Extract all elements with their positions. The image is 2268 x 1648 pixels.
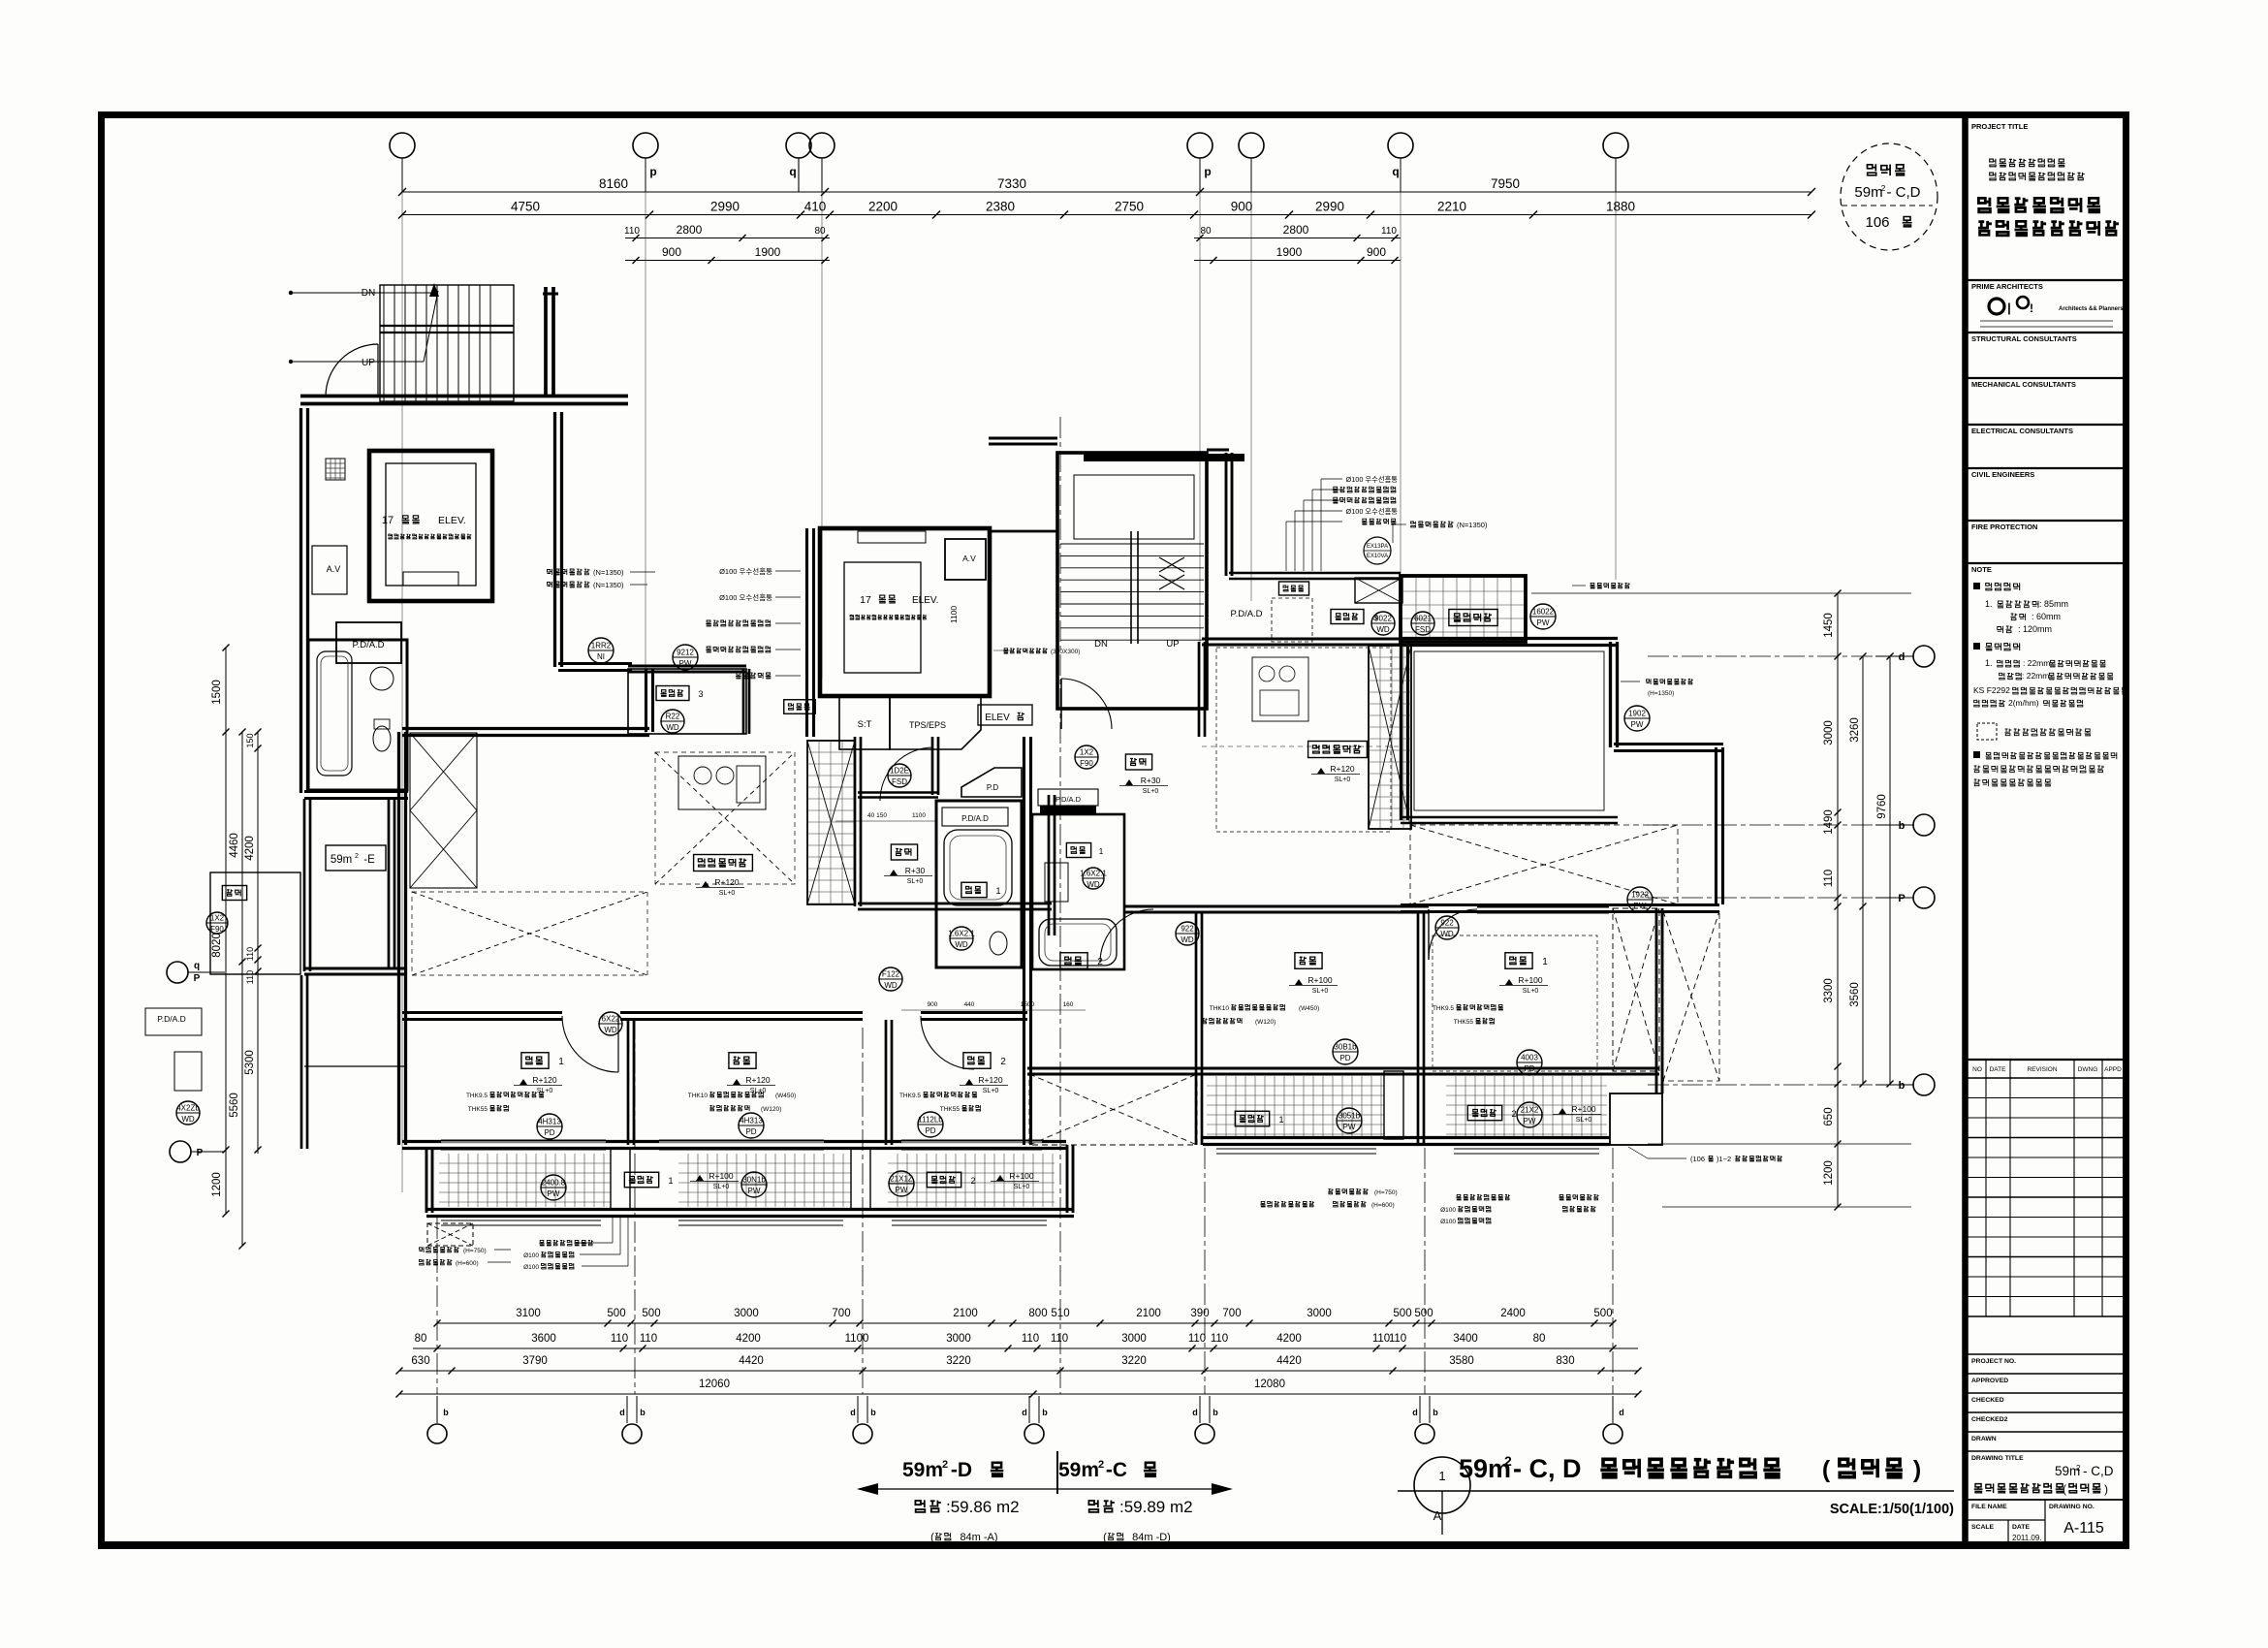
svg-text:8160: 8160 xyxy=(599,176,628,191)
svg-text:3300: 3300 xyxy=(1823,978,1835,1003)
svg-text:!: ! xyxy=(2030,301,2033,315)
svg-text:UP: UP xyxy=(362,358,375,368)
svg-text:SL+0: SL+0 xyxy=(1014,1184,1030,1190)
svg-text:21X1Z: 21X1Z xyxy=(890,1175,913,1184)
D balconies xyxy=(439,1154,611,1207)
svg-text:900: 900 xyxy=(662,245,681,259)
svg-text:PW: PW xyxy=(748,1187,761,1195)
svg-text:WD: WD xyxy=(1087,880,1100,889)
svg-text:1100: 1100 xyxy=(949,606,959,624)
svg-text:b: b xyxy=(1433,1408,1438,1417)
svg-text:2: 2 xyxy=(1000,1057,1006,1067)
svg-text:4420: 4420 xyxy=(1276,1355,1302,1367)
svg-text:7950: 7950 xyxy=(1491,176,1520,191)
svg-text:110: 110 xyxy=(1823,870,1835,887)
svg-text:1: 1 xyxy=(1099,846,1104,856)
svg-text:WD: WD xyxy=(604,1026,617,1034)
svg-text:7330: 7330 xyxy=(997,176,1026,191)
svg-text:SL+0: SL+0 xyxy=(713,1184,730,1190)
svg-text:P.D/A.D: P.D/A.D xyxy=(1055,795,1082,804)
svg-text:-E: -E xyxy=(363,854,375,866)
svg-text:3220: 3220 xyxy=(946,1355,971,1367)
svg-text:EX10VA: EX10VA xyxy=(1367,554,1388,559)
svg-text:2100: 2100 xyxy=(953,1308,978,1319)
svg-text:PW: PW xyxy=(1634,902,1647,910)
svg-text:2380: 2380 xyxy=(986,200,1015,214)
svg-text:3: 3 xyxy=(698,689,703,699)
svg-text:5300: 5300 xyxy=(244,1050,256,1075)
svg-text:30B1b: 30B1b xyxy=(1334,1043,1357,1052)
svg-text:(106: (106 xyxy=(1690,1155,1705,1163)
svg-text:R+100: R+100 xyxy=(1518,975,1543,985)
svg-text:PW: PW xyxy=(1537,618,1550,627)
svg-text:9022: 9022 xyxy=(1374,615,1392,623)
svg-text:4003: 4003 xyxy=(1521,1054,1538,1062)
svg-text:110: 110 xyxy=(1372,1333,1390,1345)
svg-text:WD: WD xyxy=(666,723,679,732)
svg-text:THK9.5: THK9.5 xyxy=(466,1093,488,1099)
svg-text:2100: 2100 xyxy=(1136,1308,1161,1319)
svg-text:ELECTRICAL CONSULTANTS: ELECTRICAL CONSULTANTS xyxy=(1971,427,2073,435)
svg-text:510: 510 xyxy=(1051,1308,1069,1319)
svg-text:3000: 3000 xyxy=(1307,1308,1332,1319)
svg-text:): ) xyxy=(2104,1482,2108,1496)
svg-text:(N=1350): (N=1350) xyxy=(593,568,624,577)
svg-text:1: 1 xyxy=(1542,957,1548,967)
svg-text:80: 80 xyxy=(415,1333,427,1345)
svg-text:DRAWN: DRAWN xyxy=(1971,1436,1997,1442)
svg-text:R+30: R+30 xyxy=(1141,776,1161,785)
svg-text:1100: 1100 xyxy=(845,1333,869,1345)
svg-text:PD: PD xyxy=(1339,1054,1350,1062)
svg-text:R+100: R+100 xyxy=(1307,975,1333,985)
svg-text:: 120mm: : 120mm xyxy=(2018,624,2052,634)
svg-text:84m -A): 84m -A) xyxy=(960,1532,997,1543)
unit span labels xyxy=(1056,1451,1058,1494)
svg-text:SL+0: SL+0 xyxy=(1143,788,1159,795)
svg-text:1490: 1490 xyxy=(1823,809,1835,835)
svg-text:R+100: R+100 xyxy=(1571,1104,1596,1114)
svg-text:700: 700 xyxy=(1222,1308,1241,1319)
svg-text:THK9.5: THK9.5 xyxy=(1433,1005,1454,1012)
svg-text:160: 160 xyxy=(1063,1001,1074,1008)
svg-text:P.D/A.D: P.D/A.D xyxy=(157,1014,186,1024)
svg-text:59m: 59m xyxy=(1854,184,1882,201)
svg-text:): ) xyxy=(1913,1456,1921,1483)
svg-text:3220: 3220 xyxy=(1121,1355,1147,1367)
svg-text:3260: 3260 xyxy=(1849,717,1861,743)
C unit refuge room xyxy=(1401,576,1526,642)
svg-text:SL+0: SL+0 xyxy=(1523,988,1539,995)
svg-text:PW: PW xyxy=(1343,1123,1356,1131)
svg-text:d: d xyxy=(1412,1408,1418,1417)
svg-text:p: p xyxy=(1204,165,1211,178)
svg-text:SL+0: SL+0 xyxy=(1576,1117,1592,1124)
svg-text:REVISION: REVISION xyxy=(2027,1066,2057,1073)
svg-text:30N1b: 30N1b xyxy=(742,1176,766,1185)
svg-text:SL+0: SL+0 xyxy=(983,1088,999,1094)
svg-text:ELEV: ELEV xyxy=(985,713,1010,723)
svg-text:1X2: 1X2 xyxy=(210,914,225,923)
svg-text:3400: 3400 xyxy=(1453,1333,1478,1345)
svg-text:9212: 9212 xyxy=(677,649,694,657)
svg-text:- C, D: - C, D xyxy=(1513,1454,1582,1483)
svg-text:THK55: THK55 xyxy=(1454,1019,1474,1026)
bath D xyxy=(936,801,1022,967)
left elevator xyxy=(369,451,492,601)
svg-text:1: 1 xyxy=(558,1057,564,1067)
svg-text:FIRE PROTECTION: FIRE PROTECTION xyxy=(1971,523,2037,531)
svg-text:17: 17 xyxy=(860,594,871,606)
svg-text:DRAWING NO.: DRAWING NO. xyxy=(2049,1504,2095,1510)
svg-text:(N=1350): (N=1350) xyxy=(593,581,624,589)
svg-text:F90: F90 xyxy=(210,925,224,934)
svg-text:d: d xyxy=(850,1408,856,1417)
svg-text:16022: 16022 xyxy=(1532,608,1555,617)
svg-text:(300X300): (300X300) xyxy=(1051,649,1080,655)
svg-text:110: 110 xyxy=(1188,1333,1206,1345)
svg-text:3000: 3000 xyxy=(1823,720,1835,745)
svg-text:2800: 2800 xyxy=(677,223,703,237)
svg-text:R+120: R+120 xyxy=(1330,764,1355,774)
svg-text:NOTE: NOTE xyxy=(1971,565,1992,574)
svg-text:DN: DN xyxy=(1094,639,1108,650)
svg-text:-C: -C xyxy=(1106,1459,1127,1481)
svg-text:TPS/EPS: TPS/EPS xyxy=(909,720,946,730)
svg-text:(: ( xyxy=(2063,1482,2066,1496)
svg-text:PW: PW xyxy=(1524,1117,1536,1125)
svg-text:Ø100 우수선홈통: Ø100 우수선홈통 xyxy=(1346,475,1399,484)
svg-text:p: p xyxy=(649,165,656,178)
svg-text:80: 80 xyxy=(1533,1333,1546,1345)
svg-text:84m -D): 84m -D) xyxy=(1132,1532,1171,1543)
svg-text:Ø100 오수선홈통: Ø100 오수선홈통 xyxy=(719,592,772,602)
svg-text:q: q xyxy=(194,961,200,971)
svg-text:b: b xyxy=(1899,820,1906,832)
balcony3 D xyxy=(628,669,746,734)
svg-text:1450: 1450 xyxy=(1823,613,1835,638)
center stair xyxy=(1057,453,1207,709)
svg-text:1RR2: 1RR2 xyxy=(591,642,612,650)
svg-text:d: d xyxy=(1022,1408,1027,1417)
svg-text:b: b xyxy=(1213,1408,1218,1417)
svg-text:DATE: DATE xyxy=(1990,1066,2007,1073)
svg-text:b: b xyxy=(443,1408,449,1417)
svg-text:3000: 3000 xyxy=(1121,1333,1147,1345)
kitchen label xyxy=(694,855,753,872)
svg-text:P.D/A.D: P.D/A.D xyxy=(961,814,989,823)
svg-text:9760: 9760 xyxy=(1876,794,1888,819)
svg-text:(W120): (W120) xyxy=(1255,1019,1276,1026)
svg-text:2400.8: 2400.8 xyxy=(542,1179,566,1188)
svg-text:FILE NAME: FILE NAME xyxy=(1971,1504,2007,1510)
svg-text:R+30: R+30 xyxy=(905,866,926,875)
svg-text:(N=1350): (N=1350) xyxy=(1457,521,1488,529)
svg-text:2: 2 xyxy=(2076,1464,2081,1473)
svg-text:2: 2 xyxy=(1504,1453,1512,1469)
svg-text:P: P xyxy=(1898,893,1905,904)
svg-text:110: 110 xyxy=(245,947,255,961)
svg-text:b: b xyxy=(1042,1408,1048,1417)
svg-text:4200: 4200 xyxy=(736,1333,761,1345)
svg-text:: 22mm: : 22mm xyxy=(2022,671,2049,681)
svg-text:110: 110 xyxy=(1051,1333,1068,1345)
svg-text:R+120: R+120 xyxy=(532,1075,557,1085)
svg-text:b: b xyxy=(870,1408,876,1417)
svg-text:DN: DN xyxy=(362,288,375,299)
svg-text:(W120): (W120) xyxy=(761,1106,781,1113)
svg-text:4420: 4420 xyxy=(739,1355,764,1367)
svg-text:3560: 3560 xyxy=(1849,982,1861,1007)
svg-text:3100: 3100 xyxy=(516,1308,541,1319)
svg-text:59m: 59m xyxy=(902,1459,943,1481)
svg-text:110: 110 xyxy=(1211,1333,1228,1345)
svg-text:q: q xyxy=(1392,165,1399,178)
svg-text:106: 106 xyxy=(1865,214,1889,231)
svg-text:|: | xyxy=(2007,301,2011,315)
svg-text:WD: WD xyxy=(955,940,968,949)
D unit envelope xyxy=(402,734,649,737)
svg-text:PD: PD xyxy=(1524,1064,1534,1073)
svg-text:NO: NO xyxy=(1972,1066,1982,1073)
svg-text:SL+0: SL+0 xyxy=(1335,776,1351,783)
svg-text:922: 922 xyxy=(1440,919,1454,928)
svg-text:900: 900 xyxy=(1231,200,1253,214)
bedroom top wall D xyxy=(402,1018,562,1021)
svg-text:- C,D: - C,D xyxy=(1887,184,1921,201)
svg-text:Ø100: Ø100 xyxy=(1440,1207,1456,1214)
svg-text:110: 110 xyxy=(640,1333,657,1345)
svg-text:2800: 2800 xyxy=(1283,223,1309,237)
svg-text:SCALE: SCALE xyxy=(1971,1524,1995,1531)
svg-text:6021: 6021 xyxy=(1414,615,1432,623)
svg-text:700: 700 xyxy=(832,1308,850,1319)
svg-text:1.: 1. xyxy=(1985,599,1993,609)
svg-text:110: 110 xyxy=(1389,1333,1406,1345)
svg-text:WD: WD xyxy=(884,981,898,990)
svg-text:PD: PD xyxy=(544,1128,554,1137)
svg-text:THK10: THK10 xyxy=(1210,1005,1230,1012)
svg-text:410: 410 xyxy=(804,200,827,214)
svg-text:P.D/A.D: P.D/A.D xyxy=(1230,609,1262,619)
svg-text:PW: PW xyxy=(896,1186,908,1194)
svg-text:2990: 2990 xyxy=(1315,200,1344,214)
svg-text:900: 900 xyxy=(1367,245,1386,259)
svg-text:1900: 1900 xyxy=(755,245,781,259)
svg-text:THK55: THK55 xyxy=(468,1106,488,1113)
svg-text:80: 80 xyxy=(1200,226,1212,237)
svg-text:2(m/hm): 2(m/hm) xyxy=(2008,698,2039,708)
svg-text:(W450): (W450) xyxy=(775,1093,796,1099)
svg-text:DRAWING TITLE: DRAWING TITLE xyxy=(1971,1455,2024,1462)
svg-text:WD: WD xyxy=(1376,625,1390,634)
C big room xyxy=(1401,644,1618,647)
svg-text:WD: WD xyxy=(1181,935,1194,944)
svg-text:WD: WD xyxy=(181,1115,195,1124)
svg-text:d: d xyxy=(1192,1408,1198,1417)
C X region xyxy=(1410,825,1678,904)
svg-text:3580: 3580 xyxy=(1449,1355,1474,1367)
svg-text:SL+0: SL+0 xyxy=(907,878,924,885)
svg-text:R+120: R+120 xyxy=(978,1075,1003,1085)
svg-text:q: q xyxy=(789,165,796,178)
svg-text:4X2Zb: 4X2Zb xyxy=(176,1104,200,1113)
svg-text:2: 2 xyxy=(1098,1459,1104,1471)
svg-text:(: ( xyxy=(1822,1456,1831,1483)
svg-text:80: 80 xyxy=(814,226,826,237)
svg-text:THK10: THK10 xyxy=(688,1093,709,1099)
svg-text:DWNG: DWNG xyxy=(2078,1066,2098,1073)
svg-text:- C,D: - C,D xyxy=(2083,1464,2114,1478)
svg-text:F90: F90 xyxy=(1080,759,1093,768)
svg-text:d: d xyxy=(619,1408,625,1417)
svg-text:1900: 1900 xyxy=(1276,245,1303,259)
svg-text:PW: PW xyxy=(1631,720,1644,729)
svg-text::59.86 m2: :59.86 m2 xyxy=(946,1498,1020,1516)
svg-text:PD: PD xyxy=(745,1127,756,1136)
svg-text::59.89 m2: :59.89 m2 xyxy=(1119,1498,1193,1516)
svg-text:CHECKED2: CHECKED2 xyxy=(1971,1416,2008,1423)
C balconies xyxy=(1207,1076,1384,1136)
svg-text:PW: PW xyxy=(548,1189,560,1198)
svg-text:F122: F122 xyxy=(882,970,900,979)
svg-text:110: 110 xyxy=(1381,226,1397,237)
svg-text:59m: 59m xyxy=(1058,1459,1099,1481)
svg-text:922: 922 xyxy=(1181,925,1194,934)
svg-text:40 150: 40 150 xyxy=(867,812,887,819)
svg-text:500: 500 xyxy=(1414,1308,1433,1319)
svg-text:110: 110 xyxy=(624,226,640,237)
svg-text:650: 650 xyxy=(1823,1107,1835,1125)
svg-text:21X2: 21X2 xyxy=(1521,1106,1539,1115)
svg-text:2: 2 xyxy=(1097,957,1103,967)
svg-text:1500: 1500 xyxy=(1021,1001,1035,1008)
svg-text:1880: 1880 xyxy=(1606,200,1635,214)
svg-text:1: 1 xyxy=(668,1176,673,1186)
svg-text:THK55: THK55 xyxy=(940,1106,961,1113)
svg-text:2: 2 xyxy=(970,1176,975,1186)
svg-text:WD: WD xyxy=(1440,930,1454,938)
svg-text:PROJECT NO.: PROJECT NO. xyxy=(1971,1358,2016,1365)
svg-text:Ø100: Ø100 xyxy=(523,1264,539,1271)
svg-text:NI: NI xyxy=(597,652,605,661)
svg-text:APPD: APPD xyxy=(2104,1066,2122,1073)
svg-text:110: 110 xyxy=(611,1333,628,1345)
svg-text:KS F2292: KS F2292 xyxy=(1973,685,2010,695)
svg-text:2: 2 xyxy=(355,853,359,860)
svg-text:2210: 2210 xyxy=(1437,200,1466,214)
right dims xyxy=(1648,1143,1911,1145)
bottom dims xyxy=(437,1322,1613,1324)
left dims xyxy=(225,648,227,1214)
svg-text:1D2E: 1D2E xyxy=(890,767,909,776)
svg-text:500: 500 xyxy=(642,1308,660,1319)
59E bath xyxy=(308,640,407,790)
svg-text:(H=1350): (H=1350) xyxy=(1648,690,1674,697)
svg-text:110: 110 xyxy=(1022,1333,1039,1345)
svg-text:3000: 3000 xyxy=(946,1333,971,1345)
svg-text:1.6X2.1: 1.6X2.1 xyxy=(948,930,975,938)
svg-text:d: d xyxy=(1619,1408,1624,1417)
svg-text:(H=750): (H=750) xyxy=(1374,1189,1398,1196)
svg-text:PROJECT TITLE: PROJECT TITLE xyxy=(1971,122,2028,131)
svg-text:STRUCTURAL CONSULTANTS: STRUCTURAL CONSULTANTS xyxy=(1971,334,2077,343)
svg-text:2750: 2750 xyxy=(1115,200,1144,214)
svg-text:(: ( xyxy=(930,1532,934,1543)
svg-text:2: 2 xyxy=(1881,183,1886,193)
svg-text:APPROVED: APPROVED xyxy=(1971,1378,2008,1384)
svg-text:500: 500 xyxy=(1393,1308,1411,1319)
svg-text:900: 900 xyxy=(928,1001,938,1008)
elevator 2 xyxy=(820,528,990,696)
svg-text:800: 800 xyxy=(1028,1308,1047,1319)
svg-text:1112Lb: 1112Lb xyxy=(918,1116,943,1125)
svg-text:1X2: 1X2 xyxy=(1080,748,1094,757)
svg-text:: 22mm: : 22mm xyxy=(2023,658,2050,668)
svg-text:)1~2: )1~2 xyxy=(1717,1155,1731,1163)
svg-text:500: 500 xyxy=(1593,1308,1612,1319)
svg-text:DATE: DATE xyxy=(2012,1524,2030,1531)
svg-text:R+120: R+120 xyxy=(745,1075,771,1085)
svg-text:12060: 12060 xyxy=(699,1379,730,1390)
svg-text:d: d xyxy=(1899,651,1906,663)
svg-text:PRIME ARCHITECTS: PRIME ARCHITECTS xyxy=(1971,282,2043,291)
svg-text:1: 1 xyxy=(1438,1469,1445,1483)
svg-text:R22: R22 xyxy=(666,713,680,721)
svg-text:: 60mm: : 60mm xyxy=(2032,612,2061,621)
svg-text:390: 390 xyxy=(1190,1308,1209,1319)
svg-text:3600: 3600 xyxy=(531,1333,556,1345)
svg-text:4200: 4200 xyxy=(244,836,256,861)
svg-text:1922: 1922 xyxy=(1631,891,1649,900)
svg-text:59m: 59m xyxy=(1459,1454,1511,1483)
svg-text:PD: PD xyxy=(925,1126,935,1135)
svg-text:630: 630 xyxy=(411,1355,429,1367)
svg-text:SL+0: SL+0 xyxy=(1312,988,1329,995)
svg-text:1902: 1902 xyxy=(1628,710,1646,718)
svg-text:6X22: 6X22 xyxy=(602,1015,620,1024)
svg-text:R+100: R+100 xyxy=(1009,1171,1034,1181)
svg-text:4460: 4460 xyxy=(229,833,240,858)
svg-text:1100: 1100 xyxy=(912,812,926,819)
svg-text:ELEV.: ELEV. xyxy=(912,595,938,606)
svg-text:Architects && Planners: Architects && Planners xyxy=(2059,306,2124,312)
svg-text:FSD: FSD xyxy=(892,777,907,786)
svg-text:(: ( xyxy=(1103,1532,1107,1543)
svg-text:P.D/A.D: P.D/A.D xyxy=(352,640,384,650)
svg-text:Ø100: Ø100 xyxy=(523,1252,539,1259)
svg-text:4750: 4750 xyxy=(511,200,540,214)
svg-text:2990: 2990 xyxy=(710,200,740,214)
svg-text:A.V: A.V xyxy=(962,554,976,563)
svg-text:8020: 8020 xyxy=(211,933,223,958)
svg-text:830: 830 xyxy=(1556,1355,1574,1367)
stair hatch xyxy=(380,285,514,401)
svg-text:1: 1 xyxy=(1278,1115,1283,1125)
svg-text:-D: -D xyxy=(951,1459,972,1481)
svg-text:440: 440 xyxy=(964,1001,975,1008)
svg-text:SL+0: SL+0 xyxy=(719,890,736,897)
svg-text:R+120: R+120 xyxy=(714,877,740,887)
svg-text:500: 500 xyxy=(607,1308,625,1319)
svg-text:UP: UP xyxy=(1166,639,1179,650)
svg-text:A-115: A-115 xyxy=(2063,1520,2104,1537)
svg-text:3051b: 3051b xyxy=(1339,1112,1361,1121)
svg-text:EX13PA: EX13PA xyxy=(1367,544,1388,550)
svg-text:1.: 1. xyxy=(1985,658,1993,668)
svg-text:4H313: 4H313 xyxy=(740,1117,763,1125)
svg-text:1200: 1200 xyxy=(211,1172,223,1197)
